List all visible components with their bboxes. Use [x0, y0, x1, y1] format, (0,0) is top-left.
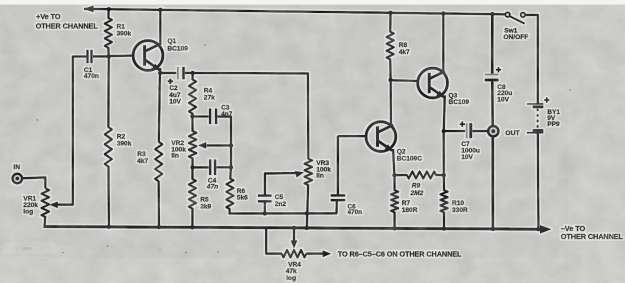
wire rail to Q3 collector [442, 14, 444, 73]
wire C4 right [216, 166, 231, 168]
wire R4 top [191, 73, 194, 80]
junction R3/0V rail [157, 225, 161, 229]
wire R7 to 0V rail [393, 212, 395, 229]
wire R10 to 0V rail [443, 212, 445, 229]
wire VR3 bottom to 0V rail [307, 185, 308, 228]
wire OUT jack to 0V rail [491, 136, 494, 229]
wire R4 bottom [191, 113, 193, 117]
capacitor C5 [258, 194, 272, 197]
capacitor C6 [331, 194, 346, 197]
junction C2/R4/top wire [191, 71, 195, 75]
potentiometer VR4 [266, 228, 282, 254]
wire Q2 emitter down [393, 149, 394, 176]
wire emitter node to R3 [159, 73, 160, 142]
junction VR3 line/0V rail [305, 226, 309, 230]
wire VR3 wiper from C5 corner [265, 173, 296, 195]
wire rail to C8 [491, 14, 494, 74]
potentiometer VR1 [42, 188, 50, 217]
junction VR4 wiper/0V rail [292, 226, 296, 230]
junction R8/Q2 collector/Q3 base [388, 78, 392, 82]
wire Q3 base [391, 79, 418, 82]
wire R7 top [393, 175, 395, 191]
capacitor C7 [466, 123, 468, 138]
wire C2 to R4 node [185, 72, 193, 74]
node OUT jack [488, 126, 498, 136]
node -Ve arrow to other channel [540, 225, 552, 234]
switch SW1 [505, 12, 510, 17]
resistor R9 [407, 172, 436, 179]
junction C4/right column [229, 165, 233, 169]
capacitor C2 [177, 67, 179, 80]
wire R10 top [443, 175, 446, 191]
transistor Q2 [366, 122, 396, 152]
junction R9/R10/output column [442, 173, 446, 177]
junction R10/0V rail [442, 226, 446, 230]
resistor R10 [440, 190, 447, 212]
wire VR1 wiper to C1 [58, 57, 87, 205]
wire VR2 top [191, 116, 194, 131]
wire C3 left [192, 115, 208, 117]
node to-other-channel arrow [323, 250, 332, 257]
junction R7/0V rail [392, 226, 396, 230]
wire base node to R2 [107, 56, 110, 127]
node IN jack [12, 174, 22, 184]
junction Q3 emitter/C7/R10 column [442, 129, 446, 133]
wire rail to R1 [107, 9, 110, 18]
junction Q2 emitter/R9/R7 [392, 173, 396, 177]
wire +Ve supply rail (top) [84, 9, 506, 14]
wire VR4 wiper from 0V rail [293, 228, 295, 241]
junction R4/C3/VR2 [190, 114, 194, 118]
wire R1 to base node [107, 47, 110, 57]
capacitor C1 [86, 50, 88, 64]
resistor R4 [189, 80, 196, 114]
resistor R6 [226, 179, 233, 210]
wire emitter node to C2 [160, 72, 176, 74]
potentiometer VR2 [189, 131, 197, 158]
resistor R2 [105, 127, 112, 167]
junction rail/Q1 collector [158, 8, 162, 12]
wire R9 left [395, 174, 408, 176]
potentiometer VR3 [305, 159, 313, 185]
junction battery/0V rail [536, 227, 540, 231]
wire Q1 emitter down [159, 68, 161, 74]
wire output node down to R9/R10 [443, 131, 445, 175]
wire base node to Q1 base [109, 54, 134, 57]
node VR4 wiper arrow [291, 240, 298, 248]
node VR2 wiper arrow [198, 142, 207, 149]
wire rail to R8 [389, 13, 392, 32]
junction R5/0V rail [190, 225, 194, 229]
resistor R8 [387, 32, 394, 60]
wire SW1 to battery corner [525, 15, 538, 104]
wire R6 bottom corner [230, 209, 338, 214]
resistor R3 [155, 142, 162, 182]
junction rail/R1 [107, 7, 111, 11]
transistor Q3 [418, 68, 448, 98]
wire C6 bottom [335, 201, 338, 214]
wire rail to Q1 collector [159, 10, 161, 45]
node VR3 wiper arrow [295, 171, 304, 178]
junction R2/0V rail [107, 225, 111, 229]
junction C5/return line [263, 211, 267, 215]
wire battery to 0V rail [537, 133, 540, 229]
wire IN jack to VR1 top [22, 177, 45, 188]
capacitor C8 [485, 74, 499, 76]
battery BY1 [527, 103, 543, 105]
wire R4 node to VR3 top [193, 73, 309, 159]
junction rail/C8 line [490, 12, 494, 16]
transistor Q1 [133, 41, 163, 71]
wire VR2 wiper [207, 144, 232, 146]
wire C6 top to Q2 base corner [337, 136, 340, 195]
capacitor C4 [209, 159, 212, 175]
junction rail/R8 [388, 11, 392, 15]
junction rail/Q3 collector [441, 11, 445, 15]
resistor R7 [391, 190, 398, 212]
junction OUT line/0V rail [491, 227, 495, 231]
junction C1/R1/R2/base [107, 54, 111, 58]
wire VR4 to other-channel arrow [306, 253, 323, 255]
node VR1 wiper arrow [49, 201, 58, 208]
wire R5 top [191, 167, 193, 179]
wire C7 left [444, 130, 465, 132]
wire Q3 emitter down [444, 95, 445, 131]
wire C1 to base node [93, 55, 109, 57]
wire R3 to 0V rail [158, 181, 161, 227]
wire Q2 collector up [390, 80, 393, 126]
wire R9 right [436, 174, 445, 176]
wire right column wiper to C4 [230, 145, 232, 167]
junction VR2/C4/R5 [190, 165, 194, 169]
junction wiper/right column [229, 143, 233, 147]
capacitor C3 [209, 109, 212, 125]
wire C4 left [193, 166, 209, 168]
wire C8 to OUT jack [491, 81, 494, 126]
junction Q1 emitter/C2/R3 [158, 71, 162, 75]
wire VR2 bottom to C4 node [191, 158, 193, 168]
wire R2 to 0V rail [107, 166, 110, 227]
wire Q2 base [338, 135, 367, 137]
wire C7 to OUT jack [472, 130, 488, 132]
wire VR1 bottom to 0V rail [43, 216, 46, 227]
wire C3 right to right column [217, 117, 231, 146]
resistor R1 [105, 18, 112, 48]
resistor R5 [189, 179, 196, 209]
wire right column C4 to R6 [229, 167, 232, 179]
wire R8 to base node [389, 59, 392, 81]
junction VR3 line/return line [305, 211, 309, 215]
wire R5 to 0V rail [191, 208, 193, 227]
wire C5 bottom [264, 203, 266, 214]
wire 0V rail (bottom) [43, 227, 540, 230]
node +Ve feed arrow to other channel [84, 5, 94, 12]
